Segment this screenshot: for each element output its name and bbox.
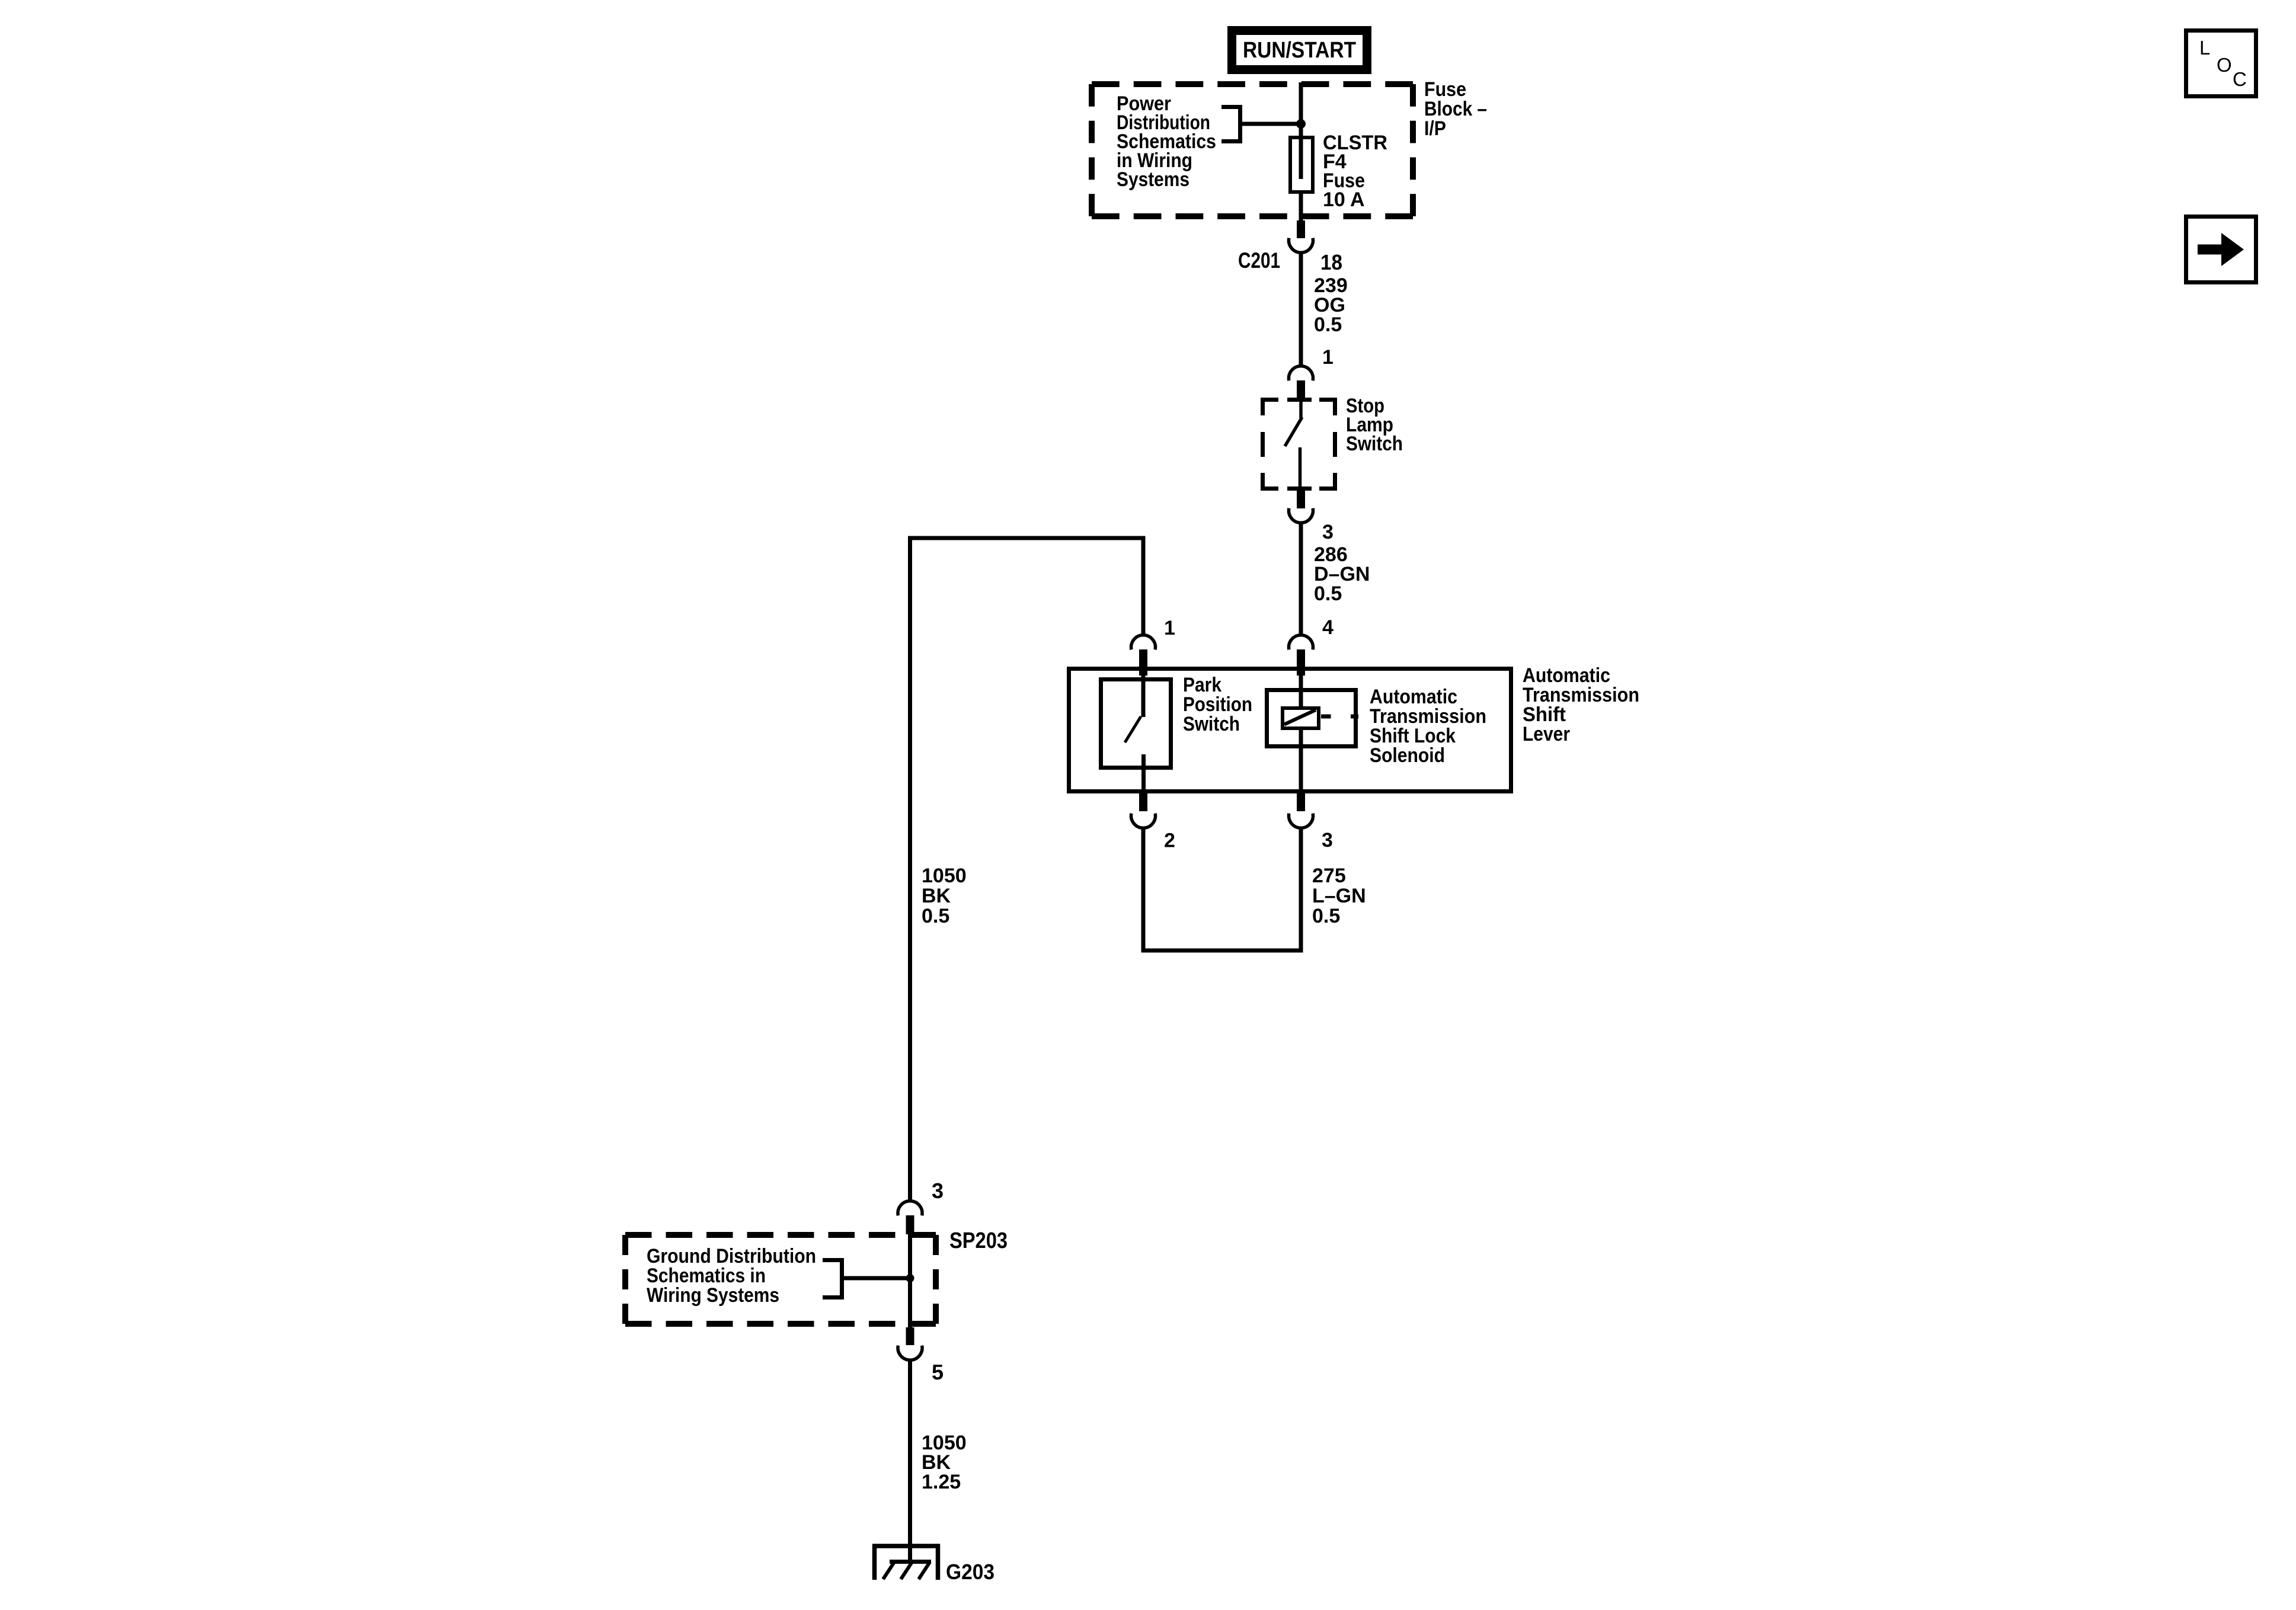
svg-text:Systems: Systems xyxy=(1117,168,1189,191)
svg-text:Lever: Lever xyxy=(1523,723,1570,745)
svg-text:G203: G203 xyxy=(946,1560,994,1584)
svg-text:0.5: 0.5 xyxy=(1314,313,1342,336)
svg-text:0.5: 0.5 xyxy=(922,905,949,927)
svg-text:5: 5 xyxy=(932,1360,944,1384)
svg-text:Wiring Systems: Wiring Systems xyxy=(647,1284,779,1307)
svg-text:275: 275 xyxy=(1312,865,1346,887)
svg-text:BK: BK xyxy=(922,885,951,907)
svg-text:SP203: SP203 xyxy=(949,1228,1008,1253)
svg-text:Switch: Switch xyxy=(1346,433,1403,455)
svg-text:1.25: 1.25 xyxy=(922,1471,961,1493)
svg-text:0.5: 0.5 xyxy=(1314,582,1342,605)
svg-text:0.5: 0.5 xyxy=(1312,905,1340,927)
svg-text:Switch: Switch xyxy=(1183,713,1240,735)
svg-text:Solenoid: Solenoid xyxy=(1370,744,1445,767)
svg-text:3: 3 xyxy=(1322,829,1333,852)
svg-text:L–GN: L–GN xyxy=(1312,885,1366,907)
svg-text:1: 1 xyxy=(1164,617,1175,639)
svg-text:C: C xyxy=(2233,68,2247,90)
svg-text:1050: 1050 xyxy=(922,865,967,887)
svg-text:2: 2 xyxy=(1164,830,1175,852)
svg-text:18: 18 xyxy=(1320,250,1342,274)
svg-text:O: O xyxy=(2217,54,2232,76)
svg-text:I/P: I/P xyxy=(1424,117,1446,140)
svg-text:1: 1 xyxy=(1322,346,1334,369)
svg-text:L: L xyxy=(2199,37,2210,59)
svg-text:3: 3 xyxy=(1322,521,1334,543)
svg-text:C201: C201 xyxy=(1238,248,1280,273)
svg-text:3: 3 xyxy=(932,1179,944,1203)
svg-text:4: 4 xyxy=(1322,616,1334,639)
svg-text:10 A: 10 A xyxy=(1323,188,1365,211)
svg-text:RUN/START: RUN/START xyxy=(1243,38,1356,63)
